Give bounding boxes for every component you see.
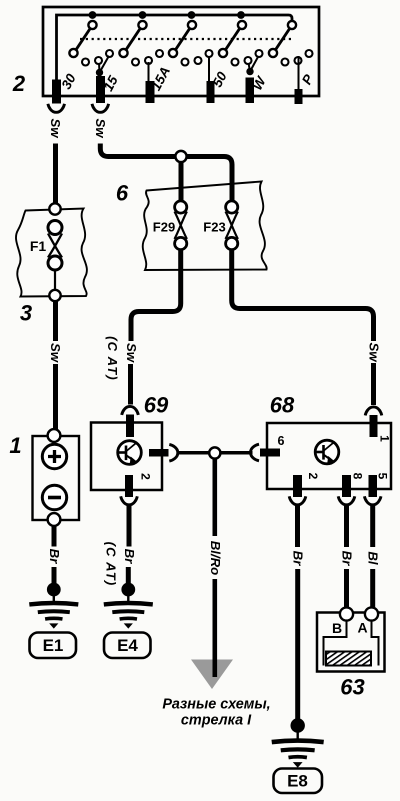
wire Sw from fuse F1 down — [53, 302, 58, 342]
connector cup at unit 68 pin 1 — [365, 407, 382, 416]
connector 63 hatched contact strip — [326, 652, 371, 666]
terminal 50 contact link — [208, 56, 210, 81]
wire: bus from terminal 30 to switch pivots — [57, 15, 293, 80]
terminal W contact links — [249, 56, 259, 72]
svg-text:Br: Br — [291, 551, 306, 567]
svg-text:F23: F23 — [203, 220, 225, 235]
junction dot on bus (unit 1) — [89, 11, 97, 19]
connector cup at unit 69 right — [169, 444, 178, 461]
wire from junction to fuse F23 — [187, 157, 232, 201]
ground stub E1 — [53, 594, 55, 603]
wire Sw into battery — [53, 364, 58, 430]
fuse F1 — [48, 221, 62, 271]
wire Br from unit 69 down — [127, 505, 132, 547]
fuse F23 — [226, 201, 238, 250]
wire Bl/Ro into arrow — [213, 579, 218, 677]
wire Sw from terminal 15 to fuse junction — [100, 144, 175, 157]
terminal 30 bar — [52, 80, 61, 104]
transistor in unit 69 — [118, 441, 142, 465]
terminal W bar — [246, 78, 255, 104]
ground label box E1 — [30, 633, 77, 659]
wire Sw into control unit 69 — [128, 364, 133, 405]
connector cup at unit 68 pin 2 — [289, 496, 306, 505]
connector cup at unit 68 pin 8 — [338, 496, 355, 505]
svg-text:1: 1 — [377, 435, 391, 442]
wire inside fuse holder 3 — [54, 270, 56, 290]
terminal W junction dot — [246, 68, 253, 75]
terminal 15 bar — [96, 76, 105, 103]
connector cup under terminal 15 — [92, 104, 109, 113]
connector cup at unit 69 bottom — [121, 496, 138, 505]
control unit 68 box — [267, 423, 391, 489]
unit 68 pin 1 terminal bar — [370, 415, 378, 437]
svg-text:2: 2 — [138, 473, 152, 480]
svg-text:3: 3 — [20, 301, 32, 326]
junction dot on bus (unit 4) — [237, 11, 245, 19]
junction dot on bus (unit 3) — [188, 11, 196, 19]
arrow to other diagrams — [191, 660, 233, 690]
svg-text:F29: F29 — [153, 220, 175, 235]
wire Sw from fuse F23 to unit 68 pin 1 — [232, 249, 374, 341]
wire to ground E1 — [52, 567, 57, 584]
battery bottom pin circle — [48, 513, 61, 526]
wire Br from unit 68 pin 8 — [344, 505, 349, 548]
ground symbol E1 — [29, 603, 78, 629]
svg-text:1: 1 — [9, 433, 21, 458]
svg-text:5: 5 — [375, 473, 389, 480]
fuse holder 3 bottom pin circle — [49, 290, 60, 301]
connector 63 box — [317, 613, 385, 672]
unit 68 pin 5 terminal bar — [369, 475, 378, 497]
unit 68 pin 8 terminal bar — [342, 475, 351, 497]
svg-text:63: 63 — [340, 675, 364, 700]
switch contact set 2 — [119, 21, 163, 66]
wire to ground E4 — [126, 567, 131, 584]
svg-text:Bl/Ro: Bl/Ro — [208, 541, 223, 575]
transistor in unit 68 — [315, 440, 339, 464]
svg-text:стрелка I: стрелка I — [181, 713, 252, 729]
svg-text:Br: Br — [47, 549, 62, 565]
wire between unit 69 and unit 68 — [178, 451, 253, 455]
connector 63 pin B circle — [340, 607, 353, 620]
connector 63 plug outline — [324, 621, 379, 666]
terminal 15 contact links — [99, 56, 109, 73]
svg-text:2: 2 — [306, 473, 320, 480]
svg-text:A: A — [357, 620, 367, 636]
svg-text:Разные схемы,: Разные схемы, — [162, 697, 270, 713]
terminal P bar — [295, 89, 303, 104]
unit 69 right terminal bar — [149, 449, 169, 457]
svg-text:Sw: Sw — [124, 343, 139, 363]
fuse panel 6 torn box — [143, 182, 267, 271]
wire Sw into unit 68 pin 1 — [371, 363, 376, 405]
junction dot on bus (unit 2) — [139, 11, 147, 19]
wire Bl into connector 63 — [370, 569, 375, 609]
connector cup at unit 69 top — [122, 406, 139, 415]
switch contact set 4 — [219, 21, 263, 66]
connector cup under terminal 30 — [48, 104, 65, 113]
connector 63 pin A circle — [365, 607, 378, 620]
svg-text:E1: E1 — [43, 636, 64, 655]
terminal 50 bar — [207, 81, 215, 103]
fuse holder 3 torn box — [16, 209, 87, 297]
battery 1 box — [33, 436, 80, 520]
svg-text:Br: Br — [122, 549, 137, 565]
wire Br from battery — [52, 526, 57, 547]
ground symbol E4 — [104, 603, 153, 629]
control unit 69 box — [91, 423, 162, 491]
wire to ground E8 — [295, 569, 300, 720]
unit 69 bottom terminal bar — [125, 475, 133, 497]
switch contact set 1 — [69, 21, 113, 66]
ground symbol E8 — [272, 741, 324, 768]
switch contact set 3 — [169, 21, 213, 66]
svg-text:(C AT): (C AT) — [104, 542, 119, 587]
wire Bl/Ro from junction down — [213, 459, 218, 537]
switch contact set 5 — [269, 21, 313, 66]
svg-text:E8: E8 — [287, 772, 308, 791]
ground stub E8 — [297, 730, 299, 740]
terminal 15 junction dot — [96, 69, 103, 76]
terminal 15A bar — [146, 81, 155, 103]
svg-text:(C AT): (C AT) — [105, 336, 120, 381]
terminal P contact link — [298, 56, 300, 89]
terminal 15A contact link — [148, 62, 150, 81]
svg-text:B: B — [332, 620, 342, 636]
wire Br into connector 63 — [344, 569, 349, 609]
svg-text:E4: E4 — [117, 636, 138, 655]
battery plus pole — [42, 444, 66, 468]
svg-text:6: 6 — [116, 181, 129, 206]
svg-text:8: 8 — [350, 473, 364, 480]
svg-text:Sw: Sw — [93, 118, 108, 138]
wire Sw from terminal 30 to fuse F1 — [53, 144, 58, 205]
unit 69 top terminal bar — [126, 415, 134, 438]
svg-text:Bl: Bl — [366, 551, 381, 565]
battery top pin circle — [48, 429, 61, 442]
battery minus pole — [42, 485, 66, 509]
svg-text:68: 68 — [270, 393, 295, 418]
wire Bl from unit 68 pin 5 — [370, 505, 375, 548]
ground dot E8 — [291, 718, 305, 732]
fuse F29 — [175, 201, 187, 250]
svg-text:Sw: Sw — [367, 342, 382, 362]
junction node between 69 and 68 — [209, 447, 220, 458]
svg-text:69: 69 — [144, 393, 169, 418]
svg-text:Br: Br — [340, 551, 355, 567]
svg-text:6: 6 — [278, 434, 285, 448]
ground dot E4 — [121, 583, 135, 597]
svg-text:Sw: Sw — [48, 343, 63, 363]
wire Br from unit 68 pin 2 — [295, 505, 300, 548]
svg-text:Sw: Sw — [48, 118, 63, 138]
unit 68 pin 2 terminal bar — [293, 475, 302, 497]
wire from junction node down to fuse F29 — [179, 162, 184, 201]
ignition switch 2: housing box — [43, 7, 319, 96]
ground stub E4 — [127, 594, 129, 603]
connector cup at unit 68 pin 6 — [250, 444, 259, 461]
connector cup at unit 68 pin 5 — [364, 496, 381, 505]
svg-text:F1: F1 — [30, 238, 47, 254]
mechanical coupling dotted line — [80, 38, 293, 40]
svg-text:2: 2 — [12, 71, 26, 96]
ground label box E4 — [104, 633, 151, 659]
fuse holder 3 top pin circle — [49, 203, 60, 214]
unit 68 pin 6 terminal bar — [260, 449, 280, 457]
ground dot E1 — [47, 583, 61, 597]
junction node above fuses — [175, 151, 186, 162]
ground label box E8 — [274, 769, 323, 794]
wire Sw from fuse F29 to control unit 69 — [131, 249, 181, 341]
